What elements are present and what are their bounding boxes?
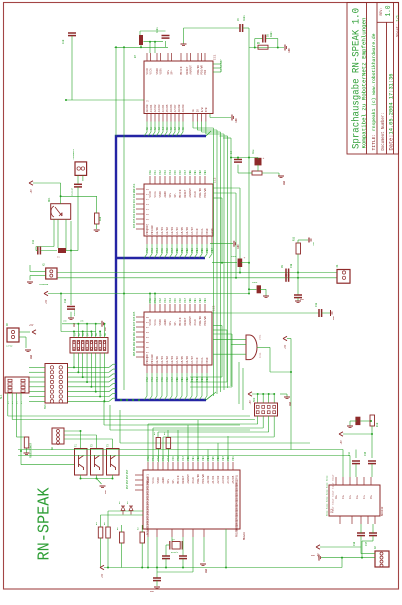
svg-text:A1/D1: A1/D1 (211, 475, 215, 483)
svg-text:C0+: C0+ (335, 494, 338, 499)
svg-text:10u: 10u (252, 149, 255, 154)
svg-text:PA1: PA1 (152, 456, 155, 461)
svg-text:VT01: VT01 (259, 334, 262, 340)
svg-text:RST: RST (126, 479, 129, 484)
svg-text:+5V: +5V (284, 344, 287, 349)
svg-text:C3+: C3+ (356, 494, 359, 499)
svg-text:PA6: PA6 (166, 248, 169, 253)
svg-text:PA6: PA6 (179, 170, 182, 175)
svg-text:PB1: PB1 (192, 456, 195, 461)
svg-text:PA1: PA1 (154, 298, 157, 303)
svg-text:SL1: SL1 (0, 394, 3, 399)
svg-text:Document Number:: Document Number: (381, 113, 386, 151)
svg-text:PD0: PD0 (227, 456, 230, 461)
svg-text:PA2: PA2 (159, 170, 162, 175)
svg-text:A4/D4: A4/D4 (175, 227, 179, 235)
svg-text:A3/D3: A3/D3 (157, 104, 161, 112)
svg-text:A5/D5: A5/D5 (180, 227, 184, 235)
svg-text:PB6: PB6 (206, 248, 209, 253)
svg-text:A0/D0: A0/D0 (145, 104, 149, 112)
svg-text:A1/D1: A1/D1 (149, 104, 153, 112)
svg-text:C1+: C1+ (342, 494, 345, 499)
svg-text:R11: R11 (293, 236, 296, 241)
svg-text:PA5: PA5 (174, 170, 177, 175)
svg-text:R2IN: R2IN (326, 489, 329, 495)
svg-text:A5/D5: A5/D5 (180, 356, 184, 364)
svg-text:MICIN: MICIN (177, 475, 180, 483)
svg-text:A2/D2: A2/D2 (153, 104, 157, 112)
svg-text:VSSD: VSSD (206, 357, 209, 364)
svg-text:A2/D2: A2/D2 (165, 227, 169, 235)
svg-text:PB2: PB2 (186, 248, 189, 253)
svg-text:RST: RST (126, 474, 129, 479)
svg-text:R5IN: R5IN (326, 510, 329, 516)
svg-text:VCCA: VCCA (152, 477, 155, 484)
svg-text:PB7: PB7 (222, 456, 225, 461)
svg-text:+: + (263, 157, 265, 160)
svg-text:GND: GND (205, 568, 208, 573)
svg-text:GND: GND (133, 188, 136, 193)
svg-text:IC3: IC3 (213, 305, 216, 311)
svg-text:PB2: PB2 (199, 170, 202, 175)
svg-text:PA3: PA3 (151, 248, 154, 253)
svg-text:PB1: PB1 (194, 298, 197, 303)
svg-text:SPEAKER: SPEAKER (39, 283, 49, 286)
svg-text:PA5: PA5 (174, 298, 177, 303)
svg-text:PB4: PB4 (196, 248, 199, 253)
svg-text:RESET: RESET (184, 189, 187, 197)
svg-text:A6/D6: A6/D6 (185, 356, 189, 364)
svg-text:PB0: PB0 (189, 170, 192, 175)
svg-text:PA7: PA7 (182, 456, 185, 461)
svg-text:BSY: BSY (220, 63, 223, 68)
svg-text:PB3: PB3 (133, 341, 136, 346)
svg-text:R10: R10 (376, 422, 379, 427)
svg-text:PD1: PD1 (232, 456, 235, 461)
svg-text:PA2: PA2 (133, 203, 136, 208)
svg-text:+5V: +5V (30, 189, 33, 194)
svg-text:A1/D1: A1/D1 (160, 227, 164, 235)
svg-text:A7/D7: A7/D7 (190, 356, 194, 364)
svg-text:PA6: PA6 (177, 456, 180, 461)
svg-text:100n: 100n (270, 31, 273, 37)
svg-text:GND: GND (30, 354, 33, 359)
svg-text:C10: C10 (62, 39, 65, 44)
svg-text:AGND: AGND (164, 319, 167, 326)
svg-text:+5V: +5V (101, 573, 104, 578)
svg-text:PA7: PA7 (133, 321, 136, 326)
svg-text:PA0: PA0 (133, 193, 136, 198)
svg-text:PB3: PB3 (202, 456, 205, 461)
svg-text:PA4: PA4 (156, 248, 159, 253)
svg-text:PB1: PB1 (194, 170, 197, 175)
svg-text:C10: C10 (290, 263, 293, 268)
svg-text:IC2: IC2 (214, 177, 217, 183)
svg-text:PD0/RD: PD0/RD (196, 474, 200, 484)
svg-text:MAX232: MAX232 (381, 506, 384, 516)
svg-text:PA5: PA5 (172, 456, 175, 461)
svg-text:R0IN: R0IN (326, 475, 329, 481)
svg-text:IO: IO (197, 109, 200, 113)
svg-text:PB0: PB0 (176, 248, 179, 253)
svg-text:1.0: 1.0 (385, 5, 393, 16)
svg-text:100n: 100n (156, 27, 159, 33)
svg-text:GND: GND (104, 326, 107, 331)
svg-text:MICIN: MICIN (179, 317, 182, 325)
svg-text:SP-: SP- (171, 69, 174, 74)
svg-text:C16: C16 (64, 298, 67, 303)
svg-text:A0/D0: A0/D0 (155, 356, 159, 364)
svg-text:PA6: PA6 (133, 223, 136, 228)
svg-text:ANAOUT: ANAOUT (189, 316, 192, 326)
svg-text:+: + (244, 257, 246, 260)
svg-text:PB1: PB1 (181, 377, 184, 382)
svg-text:PA6: PA6 (179, 298, 182, 303)
svg-text:VCC: VCC (133, 183, 136, 188)
svg-text:SP+: SP+ (169, 192, 172, 197)
svg-text:T0OUT: T0OUT (332, 474, 335, 481)
svg-text:VSSD: VSSD (159, 191, 162, 198)
svg-text:PB5: PB5 (212, 456, 215, 461)
svg-text:PB5: PB5 (133, 351, 136, 356)
svg-text:PD1/WR: PD1/WR (150, 225, 154, 235)
svg-text:PA7: PA7 (184, 298, 187, 303)
svg-text:10k: 10k (99, 216, 102, 221)
svg-text:PB5: PB5 (201, 377, 204, 382)
svg-text:VCCD: VCCD (196, 228, 199, 235)
svg-text:IC1: IC1 (214, 54, 217, 60)
svg-text:PD2: PD2 (204, 69, 207, 74)
svg-text:GND: GND (237, 244, 240, 249)
svg-text:PA3: PA3 (164, 298, 167, 303)
svg-text:PB3: PB3 (204, 170, 207, 175)
svg-text:VCCA: VCCA (201, 357, 204, 364)
svg-text:PA7: PA7 (171, 248, 174, 253)
svg-text:RN-SPEAK: RN-SPEAK (36, 487, 54, 560)
svg-text:PA1: PA1 (154, 170, 157, 175)
svg-text:RESET: RESET (184, 317, 187, 325)
svg-text:PA2: PA2 (146, 377, 149, 382)
svg-text:XCLK: XCLK (194, 319, 197, 326)
svg-text:C13: C13 (315, 302, 318, 307)
svg-text:VCCA: VCCA (201, 228, 204, 235)
svg-text:SP-: SP- (172, 478, 175, 483)
svg-text:Date:14.05.2004 17:31:36: Date:14.05.2004 17:31:36 (389, 74, 395, 151)
svg-text:VCCA: VCCA (154, 191, 157, 198)
svg-text:ANAOUT: ANAOUT (190, 65, 193, 75)
svg-text:ANAOUT: ANAOUT (189, 188, 192, 198)
svg-text:A3/D3: A3/D3 (221, 475, 225, 483)
svg-text:GND: GND (289, 401, 292, 406)
svg-text:GND: GND (73, 322, 76, 327)
svg-text:PA3: PA3 (164, 170, 167, 175)
svg-text:PA2: PA2 (159, 298, 162, 303)
svg-text:VSSA: VSSA (160, 68, 163, 75)
svg-text:PB3: PB3 (191, 248, 194, 253)
svg-text:PD1/WR: PD1/WR (200, 65, 204, 75)
svg-text:SV1: SV1 (44, 404, 47, 409)
svg-text:PA5: PA5 (133, 218, 136, 223)
svg-text:HC49/S: HC49/S (171, 551, 179, 554)
svg-text:PB1: PB1 (133, 331, 136, 336)
svg-text:PD0/RD: PD0/RD (196, 65, 200, 75)
svg-text:PB5: PB5 (201, 248, 204, 253)
svg-text:C14: C14 (348, 451, 351, 456)
svg-text:PA6: PA6 (166, 377, 169, 382)
svg-text:PA7: PA7 (171, 377, 174, 382)
svg-text:100n: 100n (243, 15, 246, 21)
svg-text:PA5: PA5 (161, 248, 164, 253)
svg-text:GND: GND (311, 554, 316, 557)
svg-text:PA7: PA7 (184, 170, 187, 175)
svg-text:R3IN: R3IN (326, 496, 329, 502)
svg-text:PB4: PB4 (133, 346, 136, 351)
svg-text:PB2(ICP1): PB2(ICP1) (236, 525, 239, 537)
svg-text:VCCD: VCCD (149, 319, 152, 326)
svg-text:PB2: PB2 (197, 456, 200, 461)
svg-text:100nF: 100nF (73, 309, 76, 316)
svg-text:VCCA: VCCA (150, 68, 153, 75)
svg-text:C17: C17 (365, 541, 368, 546)
svg-text:PA4: PA4 (133, 213, 136, 218)
svg-text:VCCD: VCCD (196, 357, 199, 364)
svg-text:TITLE: rnspeak1 (c) www.roboti: TITLE: rnspeak1 (c) www.robotikhardware.… (371, 33, 377, 150)
svg-text:PA0: PA0 (149, 298, 152, 303)
svg-text:PD1/WR: PD1/WR (201, 474, 205, 484)
svg-text:GND: GND (150, 590, 155, 593)
svg-text:XCLK: XCLK (194, 191, 197, 198)
svg-text:T1OUT: T1OUT (332, 482, 335, 489)
svg-text:C5+: C5+ (370, 494, 373, 499)
svg-text:+5V: +5V (249, 400, 252, 405)
svg-text:XCLK: XCLK (192, 477, 195, 484)
svg-text:A7/D7: A7/D7 (190, 227, 194, 235)
svg-text:PA6: PA6 (133, 316, 136, 321)
svg-text:GND: GND (283, 180, 286, 185)
svg-text:A4/D4: A4/D4 (226, 475, 230, 483)
svg-text:Kompatibel zu RoboterNetz Empf: Kompatibel zu RoboterNetz Empfehlungen (361, 18, 368, 149)
svg-text:PA2: PA2 (146, 248, 149, 253)
svg-text:GND: GND (235, 118, 238, 123)
svg-text:PD1/WR: PD1/WR (203, 316, 207, 326)
svg-text:PB2: PB2 (199, 298, 202, 303)
svg-text:C4+: C4+ (363, 494, 366, 499)
svg-text:A8/D8: A8/D8 (177, 104, 181, 112)
svg-text:10uF: 10uF (231, 255, 237, 258)
svg-text:C16: C16 (353, 541, 356, 546)
svg-text:A6/D6: A6/D6 (185, 227, 189, 235)
svg-text:PD1/WR: PD1/WR (203, 188, 207, 198)
svg-text:R/W: R/W (200, 107, 204, 112)
svg-text:A4/D4: A4/D4 (175, 356, 179, 364)
svg-text:C15: C15 (364, 451, 367, 456)
svg-text:A2/D2: A2/D2 (216, 475, 220, 483)
svg-text:A0/D0: A0/D0 (206, 475, 210, 483)
svg-text:BSY: BSY (220, 67, 223, 72)
svg-text:Sheet: 1/1: Sheet: 1/1 (395, 14, 400, 37)
svg-text:SP+: SP+ (169, 320, 172, 325)
svg-text:PA4: PA4 (156, 377, 159, 382)
svg-text:SP-: SP- (174, 320, 177, 325)
svg-text:PA3: PA3 (151, 377, 154, 382)
svg-text:PB4: PB4 (207, 456, 210, 461)
svg-text:1N4148: 1N4148 (71, 187, 74, 196)
svg-text:T2OUT: T2OUT (332, 490, 335, 497)
svg-text:SP-: SP- (174, 192, 177, 197)
svg-text:VSSD: VSSD (159, 319, 162, 326)
svg-text:+5V: +5V (312, 241, 315, 246)
svg-text:VCCA: VCCA (154, 319, 157, 326)
svg-text:A5/D5: A5/D5 (165, 104, 169, 112)
svg-text:RESET: RESET (182, 475, 185, 483)
svg-text:PB3: PB3 (204, 298, 207, 303)
svg-text:RST: RST (126, 484, 129, 489)
svg-text:SP+: SP+ (167, 478, 170, 483)
svg-text:PB3: PB3 (191, 377, 194, 382)
svg-text:R4IN: R4IN (326, 503, 329, 509)
svg-text:MICIN: MICIN (179, 189, 182, 197)
svg-text:VCCD: VCCD (149, 191, 152, 198)
svg-text:R1IN: R1IN (326, 482, 329, 488)
svg-text:A2/D2: A2/D2 (165, 356, 169, 364)
svg-text:PB0: PB0 (133, 326, 136, 331)
svg-text:A1/D1: A1/D1 (160, 356, 164, 364)
svg-text:A4/D4: A4/D4 (161, 104, 165, 112)
svg-text:ANAOUT: ANAOUT (187, 474, 190, 484)
svg-text:PD0/RD: PD0/RD (198, 316, 202, 326)
svg-text:MEGA8: MEGA8 (243, 532, 246, 540)
svg-text:STB: STB (205, 107, 208, 112)
svg-text:PB6: PB6 (206, 377, 209, 382)
svg-text:CE: CE (192, 109, 195, 113)
svg-text:PB1: PB1 (181, 248, 184, 253)
svg-text:PA0: PA0 (149, 170, 152, 175)
svg-text:PD0/RD: PD0/RD (198, 188, 202, 198)
svg-text:PB2: PB2 (133, 336, 136, 341)
svg-text:PB2: PB2 (186, 377, 189, 382)
svg-text:A3/D3: A3/D3 (170, 356, 174, 364)
svg-text:GND: GND (288, 48, 291, 53)
svg-text:GND: GND (332, 315, 335, 320)
svg-text:OK1: OK1 (48, 197, 51, 202)
svg-text:+5V: +5V (29, 324, 34, 327)
svg-text:X2POW: X2POW (6, 345, 13, 348)
svg-text:A6/D6: A6/D6 (169, 104, 173, 112)
svg-text:PB0: PB0 (176, 377, 179, 382)
svg-text:A0/D0: A0/D0 (155, 227, 159, 235)
svg-text:PA0: PA0 (147, 456, 150, 461)
svg-text:VSSD: VSSD (206, 228, 209, 235)
svg-text:PA5: PA5 (161, 377, 164, 382)
svg-text:PA4: PA4 (169, 298, 172, 303)
svg-text:PA5: PA5 (133, 311, 136, 316)
svg-text:+5V: +5V (45, 299, 48, 304)
svg-text:T3OUT: T3OUT (332, 498, 335, 505)
svg-text:PB4: PB4 (196, 377, 199, 382)
svg-text:RST: RST (126, 469, 129, 474)
svg-text:PA3: PA3 (162, 456, 165, 461)
svg-text:PA4: PA4 (169, 170, 172, 175)
svg-text:C12: C12 (32, 239, 35, 244)
svg-text:SV2: SV2 (253, 397, 256, 402)
svg-text:A3/D3: A3/D3 (170, 227, 174, 235)
svg-text:REV:: REV: (379, 8, 383, 16)
svg-text:MICIN: MICIN (180, 66, 183, 74)
svg-text:X1SERIAL: X1SERIAL (72, 148, 75, 159)
svg-text:IC1A: IC1A (259, 352, 262, 358)
svg-text:A7/D7: A7/D7 (173, 104, 177, 112)
svg-text:BSY: BSY (220, 59, 223, 64)
svg-text:GND: GND (300, 298, 305, 301)
svg-text:+5V: +5V (340, 440, 343, 445)
svg-text:PB6: PB6 (217, 456, 220, 461)
svg-text:PB0: PB0 (187, 456, 190, 461)
svg-text:AGND: AGND (164, 191, 167, 198)
svg-text:A9/D9: A9/D9 (181, 104, 185, 112)
svg-text:AGND: AGND (162, 477, 165, 484)
svg-text:PD1/WR: PD1/WR (150, 354, 154, 364)
svg-text:GND: GND (104, 489, 107, 494)
svg-text:PA1: PA1 (133, 198, 136, 203)
svg-text:10uF: 10uF (252, 281, 258, 284)
svg-text:C2+: C2+ (349, 494, 352, 499)
svg-text:PB0: PB0 (189, 298, 192, 303)
svg-text:IC6: IC6 (331, 508, 334, 513)
svg-text:PA3: PA3 (133, 208, 136, 213)
svg-text:VSSD: VSSD (157, 477, 160, 484)
